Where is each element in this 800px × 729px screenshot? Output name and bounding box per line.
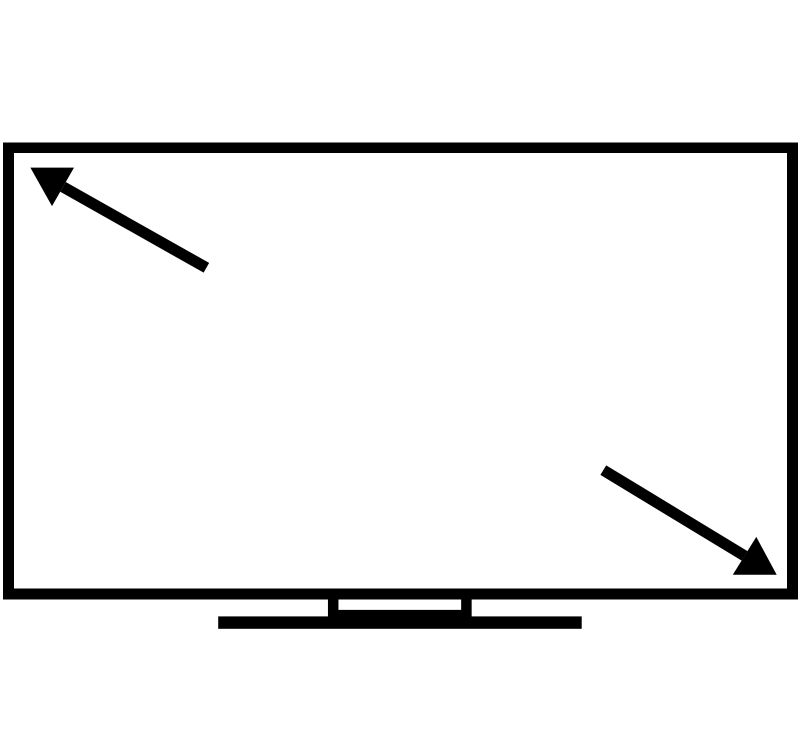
- stand neck: [333, 596, 466, 615]
- tv frame: [3, 143, 798, 600]
- arrow to bottom-right: shaft: [603, 470, 744, 556]
- arrow to top-left: head: [30, 168, 74, 207]
- stand base: [218, 616, 582, 628]
- arrow to top-left: shaft: [63, 187, 206, 268]
- arrow to bottom-right: head: [733, 537, 777, 575]
